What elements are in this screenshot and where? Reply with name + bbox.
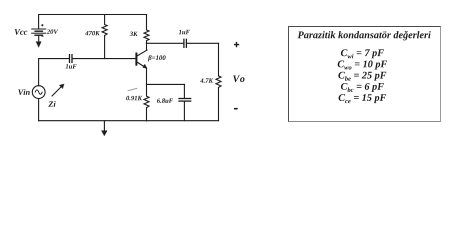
- label 1uF output: [179, 30, 190, 34]
- transistor Q1: [136, 43, 147, 84]
- label plus output: [234, 42, 239, 47]
- wire cap to base: [73, 58, 137, 60]
- ground arrow below battery: [36, 36, 41, 47]
- table row Cbe: [338, 72, 386, 81]
- label 6.8uF: [157, 98, 173, 102]
- label 3K: [130, 32, 138, 36]
- label Vo: [233, 75, 244, 82]
- wire cap to load: [187, 42, 218, 44]
- wire input (base): [39, 58, 69, 60]
- resistor R4 4.7K: [216, 76, 221, 87]
- wire Vin vertical upper: [38, 59, 40, 86]
- table row Cbc: [341, 83, 384, 92]
- resistor R1 470K: [102, 15, 107, 59]
- annotation stray mark: [128, 88, 137, 90]
- label 0.91K: [126, 96, 142, 100]
- table row Cwi: [341, 49, 384, 58]
- table parasitic capacitances: [288, 26, 441, 122]
- wire right vertical bottom: [218, 88, 220, 121]
- wire emitter junction: [147, 83, 185, 85]
- arrow Zi impedance: [52, 84, 64, 96]
- table row Cce: [339, 94, 387, 103]
- label Vcc: [15, 29, 28, 35]
- resistor R2 3K: [144, 15, 149, 44]
- wire top rail: [39, 15, 147, 29]
- label 20V: [47, 29, 59, 33]
- table row Cwo: [338, 61, 387, 70]
- table header text: [298, 31, 431, 40]
- label 470K: [85, 31, 100, 35]
- source Vin: [32, 86, 45, 99]
- label battery minus: [41, 35, 43, 37]
- label beta=100: [148, 55, 166, 61]
- capacitor C2 6.8uF: [179, 84, 191, 120]
- label 4.7K: [200, 78, 213, 82]
- ground arrow bottom: [102, 121, 107, 136]
- label Vin: [18, 89, 29, 95]
- capacitor C1 1uF input: [70, 55, 73, 63]
- resistor R3 0.91K: [144, 84, 149, 121]
- wire Vin vertical lower: [38, 99, 40, 121]
- label battery plus: [41, 24, 43, 26]
- battery Vcc: [32, 29, 46, 35]
- label 1uF input: [66, 64, 77, 68]
- wire collector: [147, 42, 184, 44]
- label Zi: [48, 101, 55, 107]
- capacitor C3 1uF output: [184, 39, 187, 47]
- label minus output: [234, 108, 238, 110]
- wire bottom rail: [39, 120, 219, 122]
- wire right vertical top: [218, 43, 220, 76]
